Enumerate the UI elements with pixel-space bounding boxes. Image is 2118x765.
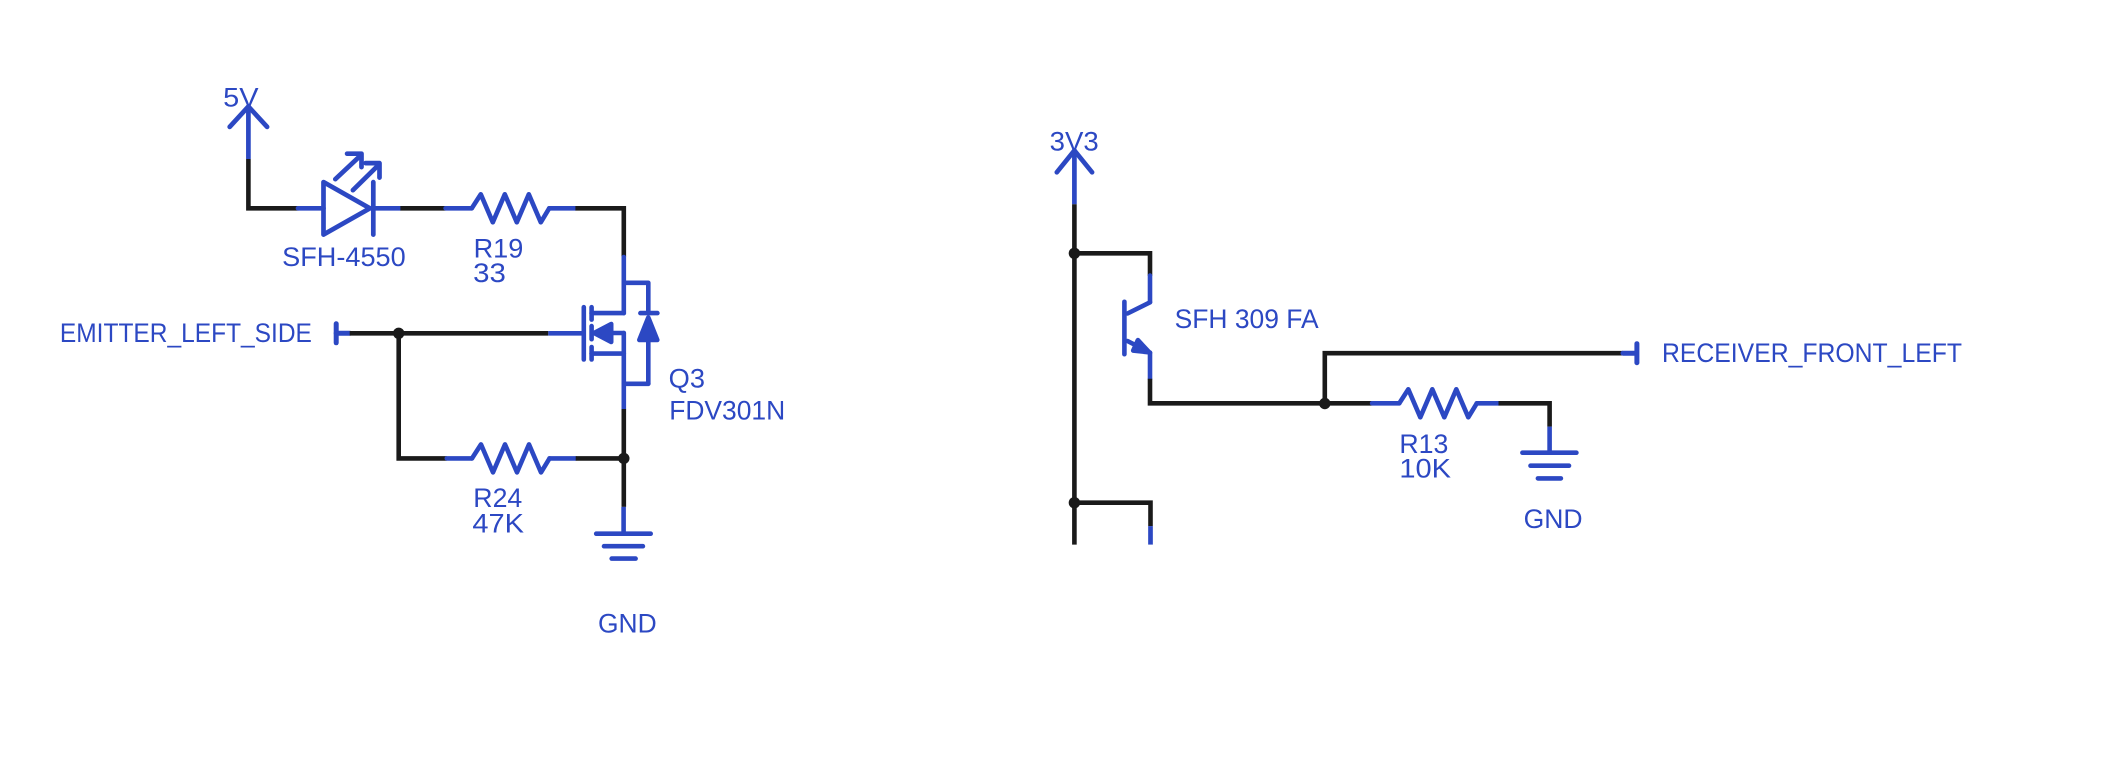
wire gate lead (blue section) [548,331,582,336]
transistor Q3 FDV301N n-mosfet [584,257,658,409]
svg-text:GND: GND [598,609,657,639]
wire 3V3 rail [1072,204,1077,544]
wire Q3 source down to junction [621,409,626,458]
pin RECEIVER_FRONT_LEFT [1623,344,1637,363]
wire R13 to GND [1499,403,1550,426]
wire rail to phototransistor collector [1074,253,1150,275]
resistor R24 [447,444,576,472]
svg-text:3V3: 3V3 [1050,127,1099,157]
svg-text:10K: 10K [1399,454,1451,484]
wire LED to R19 [400,206,445,211]
wire junction to R13 [1325,401,1372,406]
resistor R19 [446,194,576,222]
wire collector lead of cropped transistor [1148,526,1153,545]
wire junction to GND [621,458,626,507]
svg-text:SFH 309 FA: SFH 309 FA [1175,304,1319,334]
svg-text:RECEIVER_FRONT_LEFT: RECEIVER_FRONT_LEFT [1662,338,1962,368]
power 5V symbol [230,107,267,160]
wire junction down to R24 [399,333,447,458]
wire 5V to LED anode [248,159,298,208]
node junction rail lower [1069,497,1080,508]
svg-text:GND: GND [1524,504,1583,534]
wire gate (black section) [350,331,549,336]
power 3V3 symbol [1057,151,1092,205]
wire junction up to receiver pin [1325,353,1623,403]
node junction rail upper [1069,248,1080,259]
phototransistor SFH 309 FA [1124,276,1150,379]
node junction emitter/R13/receiver [1319,398,1330,409]
svg-text:FDV301N: FDV301N [669,396,785,426]
svg-text:47K: 47K [472,509,524,539]
ground symbol left [596,507,651,559]
ground symbol right [1522,427,1576,479]
pin EMITTER_LEFT_SIDE [336,324,350,343]
resistor R13 [1372,389,1498,417]
node junction gate/R24 [393,328,404,339]
wire rail to cropped second stage [1074,503,1150,526]
node junction source/R24/GND [618,453,629,464]
wire emitter to junction [1150,379,1325,404]
svg-text:Q3: Q3 [669,363,705,393]
svg-text:SFH-4550: SFH-4550 [282,242,406,272]
wire R24 to source node [576,456,624,461]
svg-text:EMITTER_LEFT_SIDE: EMITTER_LEFT_SIDE [60,318,312,348]
LED SFH-4550 [298,154,400,235]
svg-text:5V: 5V [223,82,259,112]
wire R19 to Q3 drain [575,208,623,257]
svg-text:33: 33 [473,258,506,288]
